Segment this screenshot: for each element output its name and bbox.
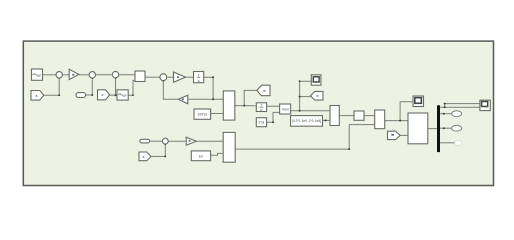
wire From tag B1 to block F input 2	[400, 134, 408, 136]
subsystem C tall	[330, 106, 339, 126]
wire demux out 3 to outport O3	[440, 127, 452, 129]
svg-text:[0.2*1 1e5 .2*1 1e5]: [0.2*1 1e5 .2*1 1e5]	[292, 119, 321, 123]
junction scope SC2 branch	[399, 120, 401, 122]
integrator fraction bar	[197, 76, 201, 78]
sum S4	[160, 74, 167, 81]
wire branch to feedback gain G3 input	[188, 98, 213, 100]
Goto tag GTW	[310, 91, 323, 100]
subsystem A tall	[223, 91, 235, 120]
wire inport oval P2 to sum S5	[150, 140, 163, 142]
scope SC1 inner screen	[313, 77, 319, 82]
gain G4	[186, 137, 196, 145]
wire demux out 1 to scope SC3 lower line	[440, 106, 480, 108]
wire demux out 2 to outport O2	[440, 113, 452, 115]
wire demux out 4 to outport O4	[440, 142, 456, 144]
junction corner below S2	[91, 94, 93, 96]
wire branch up to scope SC1	[300, 81, 312, 111]
wire sum S1 to gain G1	[62, 74, 69, 76]
svg-text:a: a	[143, 155, 145, 159]
gain G3 left-pointing	[178, 95, 188, 104]
block E	[375, 110, 385, 129]
scope SC1	[311, 75, 321, 85]
gain G2 letter mark	[177, 76, 179, 78]
source W1 waveform squiggle	[33, 74, 41, 77]
svg-text:a: a	[102, 93, 104, 97]
wire mod block out to subsystem C input 1	[291, 110, 330, 112]
source block W1	[32, 69, 43, 80]
junction integrator out corner	[212, 76, 214, 78]
block T2	[256, 103, 266, 112]
source W1 midline	[32, 74, 43, 76]
sum S1	[56, 72, 62, 78]
gain G3 letter mark	[182, 98, 184, 100]
wire block R1 to sum S4	[145, 76, 160, 78]
svg-text:mod: mod	[282, 107, 289, 111]
wire branch up to Goto tag GT1	[244, 90, 257, 105]
wire gain G2 to integrator U1	[186, 76, 194, 78]
junction 2*pi corner	[272, 121, 274, 123]
junction demux out1 upper corner	[444, 103, 446, 105]
demux bar	[437, 105, 440, 152]
arrowhead sum S3 bottom	[115, 77, 117, 79]
wire constant K1 to subsystem A input 2	[211, 113, 224, 115]
constant vector block	[291, 116, 323, 127]
From tag A1	[31, 91, 44, 101]
svg-text:1: 1	[198, 74, 200, 78]
svg-text:1/n: 1/n	[198, 154, 203, 158]
gain G2	[174, 72, 186, 82]
wire From tag A3 to sum S5 bottom	[151, 144, 165, 156]
constant 2*pi	[256, 118, 266, 127]
wire constant vector to subsystem C input 2	[323, 119, 331, 121]
svg-text:100*pi: 100*pi	[197, 113, 207, 117]
scope SC2	[413, 96, 424, 107]
arrowhead demux out3	[443, 127, 445, 129]
wire block F to demux bar	[428, 128, 437, 130]
scope SC3	[480, 100, 490, 110]
junction goto-w branch	[299, 96, 301, 98]
block W2 waveform squiggle	[118, 94, 126, 97]
model canvas panel	[23, 41, 493, 185]
wire From tag A2 to block W2	[110, 94, 117, 96]
svg-text:2*pi: 2*pi	[259, 121, 265, 125]
junction scope SC1 corner	[299, 80, 301, 82]
gain G4 letter mark	[189, 140, 191, 142]
junction block W2 out corner	[132, 94, 134, 96]
sum S3	[112, 71, 118, 77]
junction demux out1 corner	[444, 106, 446, 108]
faint outport oval O4	[455, 141, 462, 146]
From tag B1 letter mark	[391, 134, 394, 136]
junction corner below S1	[58, 94, 60, 96]
subsystem B tall	[223, 132, 235, 162]
From tag A2	[98, 90, 110, 100]
junction mod out branch	[299, 110, 301, 112]
arrowhead demux out2	[443, 113, 445, 115]
wire subsystem B feedback to block E input 2	[235, 125, 375, 150]
gain G1 letter mark	[72, 74, 74, 76]
scope SC3 inner screen	[482, 102, 488, 107]
integrator U1	[194, 72, 204, 83]
junction corner below S5	[164, 155, 166, 157]
block D	[354, 111, 364, 120]
svg-text:p: p	[261, 108, 263, 112]
scope SC2 inner screen	[415, 98, 422, 104]
block R1	[135, 71, 145, 82]
wire inport oval P1 to sum S2 bottom	[86, 78, 93, 95]
From tag A3	[139, 152, 151, 161]
block W2 saturation	[117, 90, 128, 100]
junction feedback branch	[212, 98, 214, 100]
wire sum S5 to gain G4	[168, 140, 186, 142]
sum S2	[89, 72, 95, 78]
wire sum S4 to gain G2	[167, 76, 174, 78]
constant K2	[191, 151, 210, 161]
constant K1	[194, 109, 211, 119]
Goto tag GT1	[257, 85, 270, 96]
wire sum S2 to sum S3	[96, 74, 113, 76]
block F big	[408, 113, 428, 144]
inport oval P1	[76, 93, 86, 98]
block W2 midline	[117, 94, 128, 96]
mod block	[280, 104, 291, 114]
junction From A2 branch	[115, 94, 117, 96]
arrowhead sum S2 bottom	[91, 77, 93, 79]
junction feedback corner bottom	[348, 148, 350, 150]
arrowhead sum S4 bottom	[162, 80, 164, 82]
wire source W1 to sum S1	[43, 74, 57, 76]
junction const vector out	[325, 119, 327, 121]
wire constant K2 to subsystem B input 2	[211, 153, 224, 155]
wire subsystem A out to block T2	[235, 105, 256, 107]
wire subsystem C to block D	[339, 115, 354, 117]
wire gain G4 to subsystem B input 1	[196, 140, 223, 142]
wire block D to block E input 1	[364, 115, 375, 117]
From tag B1	[388, 131, 401, 139]
wire demux out 1 upper line to scope SC3	[445, 104, 480, 108]
wire integrator U1 down to subsystem A input 1	[204, 77, 224, 99]
wire constant 2*pi to mod block input 2	[267, 112, 280, 122]
outport oval O3	[452, 125, 462, 131]
junction subsystem A out branch	[243, 105, 245, 107]
sum S5	[162, 138, 168, 144]
outport oval O2	[452, 111, 462, 117]
wire sum S3 to block R1	[119, 74, 135, 76]
wire block E to block F input 1	[385, 120, 408, 122]
svg-text:a: a	[36, 94, 38, 98]
wire branch up to scope SC2	[400, 102, 413, 121]
wire block W2 to block R1 lower input	[128, 80, 135, 95]
wire branch to Goto tag GTW	[300, 96, 311, 98]
wire gain G1 to sum S2	[79, 74, 89, 76]
arrowhead sum S5 bottom	[164, 143, 166, 145]
wire gain G3 output up to sum S4 bottom	[163, 81, 178, 100]
gain G1	[69, 69, 79, 79]
inport oval P2	[140, 139, 150, 143]
svg-text:s: s	[198, 79, 200, 83]
wire branch up to sum S3 bottom	[115, 78, 117, 95]
wire block T2 to mod block input 1	[267, 105, 280, 107]
block T2 fraction bar	[260, 106, 264, 108]
wire From tag A1 to sum S1 bottom	[44, 78, 59, 95]
arrowhead sum S1 bottom	[58, 77, 60, 79]
